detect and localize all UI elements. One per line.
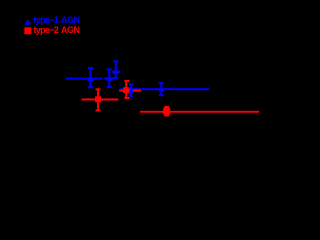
svg-text:type−1AGN: type−1AGN bbox=[34, 15, 80, 25]
svg-text:type−2AGN: type−2AGN bbox=[34, 25, 80, 35]
